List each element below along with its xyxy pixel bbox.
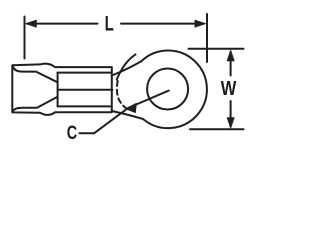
- leader line diagonal to arrow: [94, 109, 127, 134]
- arrowhead W down: [227, 118, 234, 129]
- arrowhead L right: [195, 20, 206, 27]
- svg-text:W: W: [221, 78, 237, 100]
- crimp barrel mid seam: [58, 89, 113, 91]
- dimension line L right segment: [121, 23, 204, 25]
- svg-text:L: L: [105, 12, 114, 35]
- extension line top (for W): [189, 48, 244, 50]
- crimp barrel rectangle top: [58, 72, 111, 74]
- crimp barrel rectangle bottom: [58, 105, 111, 107]
- funnel inner line bottom: [13, 97, 58, 112]
- leader inner segment to hole centre: [128, 91, 169, 108]
- arrowhead W up: [227, 50, 234, 61]
- svg-text:C: C: [67, 123, 78, 144]
- crimp barrel rectangle left edge: [57, 73, 59, 107]
- leader line from C horizontal: [80, 132, 95, 134]
- arrowhead L left: [26, 20, 37, 27]
- dimension line L left segment: [27, 23, 98, 25]
- sleeve end seam solid arc: [117, 54, 136, 79]
- funnel inner line top: [13, 67, 58, 83]
- extension line left (for L): [24, 17, 26, 59]
- ring outer arc: [141, 51, 207, 129]
- neck bottom curve: [112, 111, 143, 119]
- neck top curve: [112, 61, 142, 75]
- arrowhead C: [126, 103, 137, 112]
- extension line right (for L): [206, 14, 208, 62]
- sleeve end seam dashed arc: [117, 81, 127, 109]
- extension line bottom (for W): [190, 128, 244, 130]
- terminal sleeve outer outline (left flared insulation): [12, 64, 112, 115]
- ring inner circle (stud hole): [147, 69, 188, 110]
- dimension line W upper segment: [230, 52, 232, 76]
- dimension line W lower segment: [230, 101, 232, 126]
